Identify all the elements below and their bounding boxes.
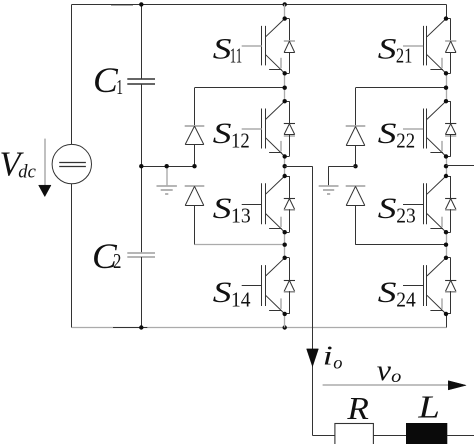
node collector of S11 — [283, 16, 287, 20]
node collector of S23 — [444, 174, 448, 178]
label io — [323, 340, 343, 373]
node collector of S22 — [444, 99, 448, 103]
dc source Vdc symbol — [52, 144, 91, 183]
node leg1 lower clamp junction — [283, 243, 287, 247]
svg-text:14: 14 — [231, 287, 251, 311]
node emitter of S13 — [283, 230, 287, 234]
node collector of S24 — [444, 256, 448, 260]
node ground tap G1 — [165, 164, 169, 168]
svg-text:S: S — [378, 118, 397, 150]
wire clamp top leg2 — [356, 88, 447, 127]
label S23 — [378, 193, 416, 227]
node bottom rail / leg1 — [283, 325, 287, 329]
diode antiparallel of S23 — [445, 176, 456, 233]
node bottom rail / capacitor bus — [139, 325, 143, 329]
svg-text:22: 22 — [396, 128, 415, 152]
transistor S22 (IGBT) — [403, 101, 446, 156]
diode antiparallel of S11 — [284, 19, 295, 74]
svg-text:o: o — [391, 366, 401, 386]
wire top rail drop to S21 — [446, 4, 448, 18]
node leg2 lower clamp junction — [444, 243, 448, 247]
ground G1 (gray) — [157, 166, 177, 194]
capacitor C2 (gray plates) — [127, 253, 155, 257]
node collector of S21 — [444, 16, 448, 20]
wire top rail — [72, 4, 447, 6]
label S12 — [213, 118, 250, 152]
label S14 — [213, 277, 251, 311]
wire left bus lower — [71, 184, 73, 328]
wire leg2 gray stubs — [446, 73, 448, 257]
svg-text:i: i — [323, 340, 333, 371]
wire ground tap leg2 — [329, 166, 356, 186]
transistor S23 (IGBT) — [403, 176, 446, 232]
wire L to right edge — [447, 435, 474, 437]
svg-text:S: S — [213, 277, 232, 309]
wire left bus upper — [71, 4, 73, 144]
current arrow io — [307, 349, 319, 367]
svg-text:21: 21 — [396, 44, 413, 68]
svg-text:o: o — [333, 353, 342, 373]
node top rail / leg1 — [283, 2, 287, 6]
diode antiparallel of S21 — [445, 19, 456, 74]
node leg2 output midpoint — [444, 164, 448, 168]
node collector of S12 — [283, 99, 287, 103]
svg-text:2: 2 — [113, 249, 121, 273]
wire bottom rail (gray) — [72, 327, 447, 329]
transistor S11 (IGBT) — [242, 19, 285, 74]
wire leg2 midpoint to right edge — [446, 165, 474, 167]
label Vdc — [0, 145, 36, 183]
label vo — [377, 354, 402, 387]
diode antiparallel of S14 — [284, 258, 295, 314]
label C2 — [92, 236, 121, 276]
svg-text:13: 13 — [231, 203, 251, 227]
arrow Vdc polarity (gray line, black head) — [39, 139, 51, 197]
diode antiparallel of S13 — [284, 176, 295, 233]
svg-text:11: 11 — [230, 44, 242, 68]
voltage arrow vo (gray line, black head) — [323, 381, 467, 390]
svg-text:L: L — [417, 389, 440, 425]
wire capacitor bus middle — [141, 84, 143, 253]
wire top rail gray overlap — [111, 5, 133, 7]
clamp diode D22 — [346, 186, 366, 245]
node emitter of S23 — [444, 230, 448, 234]
clamp diode D11 — [185, 126, 205, 166]
wire R to L — [373, 435, 406, 437]
label S13 — [213, 193, 251, 227]
node dc midpoint — [139, 164, 143, 168]
wire leg1 gray stubs — [284, 4, 286, 327]
transistor S14 (IGBT) — [242, 258, 285, 314]
wire capacitor bus bottom — [141, 257, 143, 328]
capacitor C1 — [127, 79, 155, 84]
transistor S13 (IGBT) — [242, 176, 285, 232]
diode antiparallel of S12 — [284, 101, 295, 156]
node emitter of S12 — [283, 154, 287, 158]
inductor L (filled) — [407, 424, 447, 444]
node emitter of S22 — [444, 154, 448, 158]
node emitter of S21 — [444, 71, 448, 75]
resistor R — [335, 424, 374, 444]
svg-text:S: S — [378, 34, 397, 66]
svg-text:24: 24 — [396, 287, 416, 311]
node leg2 upper clamp junction — [444, 86, 448, 90]
wire clamp bottom leg2 — [356, 244, 447, 246]
node collector of S13 — [283, 174, 287, 178]
wire dc midpoint to clamp leg1 — [141, 166, 194, 168]
node emitter of S14 — [283, 312, 287, 316]
svg-text:R: R — [346, 390, 369, 426]
diode antiparallel of S22 — [445, 101, 456, 156]
transistor S21 (IGBT) — [403, 19, 446, 74]
clamp diode D21 — [346, 126, 366, 166]
wire bottom rail black segment — [113, 327, 147, 329]
ground G2 (gray bars) — [319, 186, 339, 194]
node collector of S14 — [283, 256, 287, 260]
svg-text:23: 23 — [396, 203, 416, 227]
transistor S12 (IGBT) — [242, 101, 285, 156]
node clamp midpoint leg1 — [192, 164, 196, 168]
node leg1 output midpoint — [283, 164, 287, 168]
label C1 — [93, 60, 123, 100]
node emitter of S24 — [444, 312, 448, 316]
svg-text:12: 12 — [231, 128, 250, 152]
label S22 — [378, 118, 415, 152]
label S24 — [378, 277, 416, 311]
svg-text:S: S — [378, 277, 397, 309]
clamp diode D12 — [185, 186, 205, 245]
wire clamp top leg1 — [195, 88, 285, 126]
diode antiparallel of S24 — [445, 258, 456, 314]
label S11 — [213, 34, 242, 68]
svg-text:v: v — [377, 354, 392, 387]
svg-text:dc: dc — [18, 161, 36, 182]
svg-text:1: 1 — [116, 75, 123, 99]
node clamp midpoint leg2 — [353, 164, 357, 168]
label S21 — [378, 34, 413, 68]
transistor S24 (IGBT) — [403, 258, 446, 314]
wire capacitor bus top — [141, 4, 143, 78]
svg-text:C: C — [93, 60, 119, 100]
svg-text:S: S — [213, 193, 232, 225]
wire S24 to bottom rail — [446, 314, 448, 328]
svg-text:S: S — [213, 118, 232, 150]
node leg1 upper clamp junction — [283, 86, 287, 90]
node top rail / capacitor bus — [139, 2, 143, 6]
node emitter of S11 — [283, 71, 287, 75]
wire clamp bottom leg1 (gray) — [195, 244, 285, 246]
wire output leg1 midpoint to load — [285, 166, 335, 435]
svg-text:S: S — [378, 193, 397, 225]
